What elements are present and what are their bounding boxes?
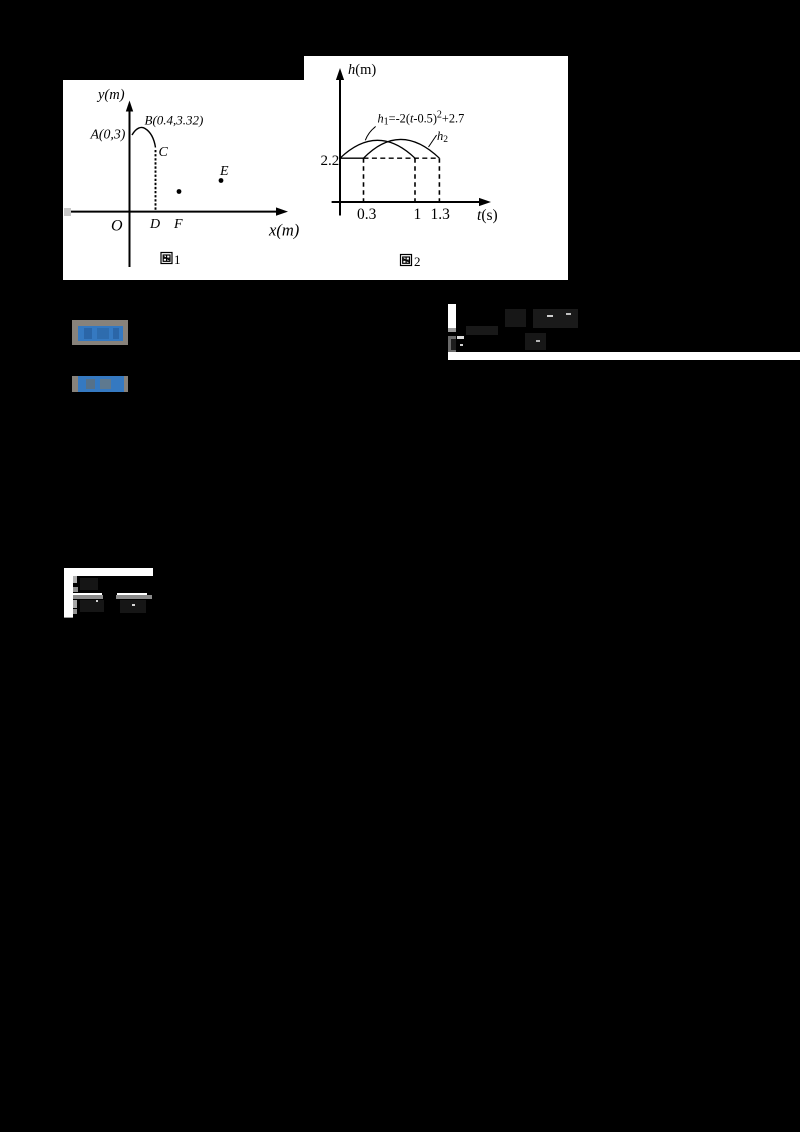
svg-text:h(m): h(m) bbox=[348, 62, 376, 78]
svg-text:C: C bbox=[159, 145, 169, 160]
svg-text:2: 2 bbox=[414, 254, 421, 269]
svg-text:x(m): x(m) bbox=[268, 221, 299, 240]
svg-text:h1=-2(t-0.5)2+2.7: h1=-2(t-0.5)2+2.7 bbox=[378, 110, 465, 128]
svg-text:F: F bbox=[173, 217, 183, 232]
svg-text:A(0,3): A(0,3) bbox=[90, 127, 126, 143]
svg-text:y(m): y(m) bbox=[96, 87, 125, 103]
svg-text:B(0.4,3.32): B(0.4,3.32) bbox=[145, 113, 204, 128]
svg-text:h2: h2 bbox=[437, 129, 448, 145]
svg-text:0.3: 0.3 bbox=[357, 206, 377, 223]
svg-text:E: E bbox=[219, 164, 229, 179]
svg-text:2.2: 2.2 bbox=[321, 153, 340, 169]
svg-text:D: D bbox=[149, 217, 160, 232]
svg-text:1: 1 bbox=[174, 252, 181, 267]
svg-text:1.3: 1.3 bbox=[431, 206, 451, 223]
svg-text:O: O bbox=[111, 218, 123, 235]
svg-text:t(s): t(s) bbox=[477, 207, 498, 224]
svg-text:1: 1 bbox=[414, 206, 422, 223]
